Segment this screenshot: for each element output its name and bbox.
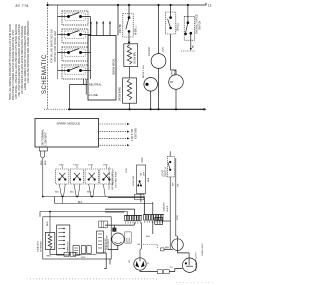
svg-text:HI-BRL 1: HI-BRL 1 [136, 25, 138, 35]
svg-text:17KV BLK WIRE: 17KV BLK WIRE [115, 171, 117, 188]
svg-text:SCHEMATIC: SCHEMATIC [42, 54, 48, 94]
svg-text:SPARK MODULE: SPARK MODULE [57, 121, 81, 125]
svg-text:2400W BAKE: 2400W BAKE [119, 86, 122, 101]
svg-text:YD: YD [170, 267, 173, 269]
svg-text:OFF: OFF [143, 171, 145, 176]
svg-text:CON: CON [126, 168, 128, 173]
svg-text:(4) GANGED WITH: (4) GANGED WITH [111, 171, 114, 190]
svg-text:17KV: 17KV [73, 164, 79, 166]
svg-text:NEUTRAL: NEUTRAL [89, 82, 102, 86]
svg-text:3600W BRL: 3600W BRL [135, 51, 137, 64]
svg-text:CAN CAUSE IMPROPER AND UNSAFE: CAN CAUSE IMPROPER AND UNSAFE OPERATION [26, 21, 30, 83]
svg-text:240V: 240V [177, 215, 179, 220]
svg-text:17KV: 17KV [103, 164, 109, 166]
svg-text:RED: RED [47, 255, 52, 257]
svg-text:BLK: BLK [146, 236, 151, 238]
svg-text:IGNITORS: IGNITORS [135, 127, 137, 139]
svg-text:ON (L1): ON (L1) [178, 23, 180, 31]
svg-text:BLA: BLA [147, 177, 150, 182]
svg-text:3600W BROIL: 3600W BROIL [112, 58, 116, 75]
svg-text:SWITCH: SWITCH [200, 21, 202, 30]
svg-text:YD: YD [129, 260, 131, 263]
svg-text:GRILL: GRILL [174, 69, 176, 76]
svg-text:240V: 240V [126, 237, 128, 242]
svg-text:INDICATOR LIGHT: INDICATOR LIGHT [195, 251, 198, 271]
svg-text:115V 60HZ: 115V 60HZ [108, 238, 110, 250]
svg-text:BRN: BRN [41, 160, 43, 165]
svg-text:240V BK: 240V BK [120, 23, 122, 33]
svg-text:240V: 240V [171, 70, 173, 76]
svg-text:17KV: 17KV [88, 164, 94, 166]
svg-text:OVEN LIGHT: OVEN LIGHT [202, 242, 204, 256]
svg-text:8Y 7?8: 8Y 7?8 [16, 4, 29, 8]
svg-text:BLK: BLK [55, 191, 60, 193]
svg-text:BLK: BLK [87, 191, 92, 193]
svg-text:CLOCK: CLOCK [147, 47, 151, 56]
svg-text:TOP IGNITOR SWITCH: TOP IGNITOR SWITCH [109, 166, 111, 190]
svg-text:BLK: BLK [70, 191, 75, 193]
svg-text:L1/BK INPUT: L1/BK INPUT [46, 131, 48, 145]
svg-text:240V: 240V [163, 46, 165, 52]
svg-text:DOTTED FOR SPARK GAP: DOTTED FOR SPARK GAP [54, 30, 57, 62]
svg-text:GRD: GRD [81, 257, 86, 259]
svg-text:BRN: BRN [45, 160, 47, 165]
svg-text:24V TERMINAL: 24V TERMINAL [41, 128, 44, 145]
svg-text:BLA: BLA [78, 201, 83, 204]
svg-text:24VA 60HZ: 24VA 60HZ [36, 240, 39, 252]
svg-text:L2 LINE: L2 LINE [88, 93, 98, 97]
svg-text:WH: WH [172, 182, 174, 186]
svg-text:XFORMER: XFORMER [40, 241, 42, 252]
svg-text:OVEN ACTIVATED: OVEN ACTIVATED [196, 14, 199, 34]
svg-text:HOLD SW: HOLD SW [133, 175, 135, 186]
svg-text:THERMOSTAT: THERMOSTAT [105, 235, 108, 250]
svg-text:BRN: BRN [47, 221, 49, 226]
svg-text:BROIL 1 IGN: BROIL 1 IGN [143, 65, 145, 78]
svg-text:BULB: BULB [167, 205, 169, 211]
svg-text:2 OF 4 TOP: 2 OF 4 TOP [132, 128, 134, 141]
svg-text:ON: ON [140, 172, 142, 176]
svg-text:60HZ: 60HZ [129, 237, 131, 243]
svg-text:100A WH: 100A WH [163, 202, 166, 212]
svg-text:HARNESS: HARNESS [67, 241, 70, 252]
svg-text:17KV: 17KV [59, 164, 65, 166]
svg-text:WH: WH [165, 248, 169, 250]
svg-text:L1: L1 [208, 4, 212, 8]
